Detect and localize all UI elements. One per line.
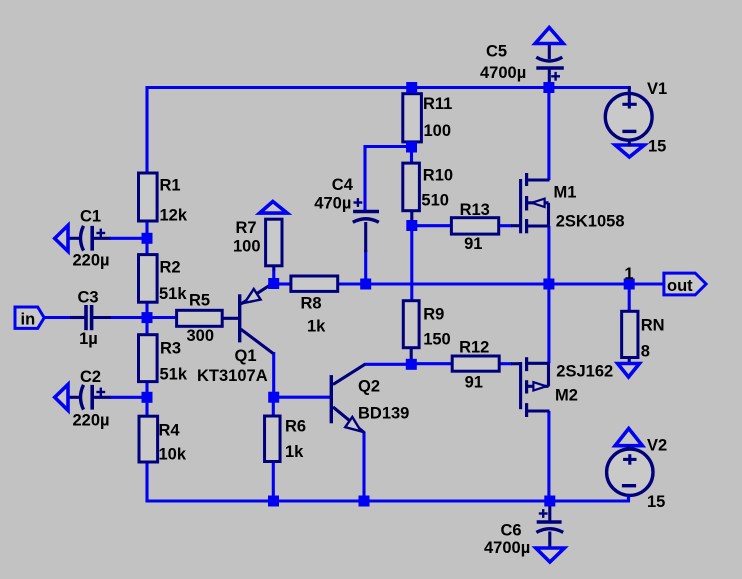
svg-text:V1: V1 bbox=[647, 80, 667, 98]
svg-text:R9: R9 bbox=[423, 305, 444, 323]
svg-text:1k: 1k bbox=[307, 317, 326, 335]
svg-text:R6: R6 bbox=[285, 418, 306, 436]
svg-text:R5: R5 bbox=[189, 292, 210, 310]
svg-text:1µ: 1µ bbox=[79, 330, 98, 348]
svg-text:R4: R4 bbox=[159, 421, 181, 439]
svg-text:Q1: Q1 bbox=[235, 347, 257, 365]
svg-text:BD139: BD139 bbox=[358, 404, 409, 422]
svg-text:4700µ: 4700µ bbox=[484, 539, 530, 557]
svg-text:R12: R12 bbox=[459, 339, 489, 357]
svg-text:100: 100 bbox=[233, 237, 261, 255]
svg-text:KT3107A: KT3107A bbox=[197, 367, 268, 385]
svg-text:220µ: 220µ bbox=[73, 252, 110, 270]
svg-text:R10: R10 bbox=[423, 167, 453, 185]
svg-text:51k: 51k bbox=[160, 366, 188, 384]
svg-text:R3: R3 bbox=[160, 340, 181, 358]
svg-text:91: 91 bbox=[465, 374, 483, 392]
svg-text:220µ: 220µ bbox=[73, 412, 110, 430]
svg-text:M2: M2 bbox=[555, 387, 578, 405]
svg-text:2SK1058: 2SK1058 bbox=[556, 213, 625, 231]
svg-text:300: 300 bbox=[187, 327, 215, 345]
svg-text:R7: R7 bbox=[236, 219, 257, 237]
svg-text:C5: C5 bbox=[486, 43, 507, 61]
svg-text:R2: R2 bbox=[160, 258, 181, 276]
svg-text:100: 100 bbox=[424, 122, 452, 140]
svg-text:12k: 12k bbox=[160, 207, 188, 225]
svg-text:15: 15 bbox=[647, 493, 665, 511]
svg-text:RN: RN bbox=[641, 317, 665, 335]
svg-text:15: 15 bbox=[648, 138, 666, 156]
svg-text:91: 91 bbox=[464, 235, 482, 253]
svg-text:1k: 1k bbox=[285, 443, 304, 461]
svg-text:1: 1 bbox=[624, 265, 633, 283]
svg-text:8: 8 bbox=[641, 343, 650, 361]
svg-text:2SJ162: 2SJ162 bbox=[556, 363, 613, 381]
svg-text:51k: 51k bbox=[159, 285, 187, 303]
svg-text:C4: C4 bbox=[332, 176, 354, 194]
svg-text:150: 150 bbox=[423, 331, 451, 349]
svg-text:R11: R11 bbox=[423, 95, 452, 113]
svg-text:C1: C1 bbox=[80, 208, 101, 226]
svg-text:C2: C2 bbox=[80, 368, 101, 386]
svg-text:R1: R1 bbox=[160, 177, 181, 195]
svg-text:510: 510 bbox=[421, 192, 449, 210]
svg-text:10k: 10k bbox=[159, 446, 187, 464]
svg-text:R13: R13 bbox=[460, 201, 490, 219]
svg-text:470µ: 470µ bbox=[314, 195, 351, 213]
svg-text:R8: R8 bbox=[301, 295, 322, 313]
svg-text:4700µ: 4700µ bbox=[480, 64, 526, 82]
svg-text:M1: M1 bbox=[554, 184, 577, 202]
svg-text:C3: C3 bbox=[78, 288, 99, 306]
svg-text:V2: V2 bbox=[647, 437, 667, 455]
svg-text:out: out bbox=[667, 277, 693, 295]
svg-text:in: in bbox=[21, 310, 36, 328]
svg-text:Q2: Q2 bbox=[358, 378, 380, 396]
svg-text:C6: C6 bbox=[501, 522, 522, 540]
